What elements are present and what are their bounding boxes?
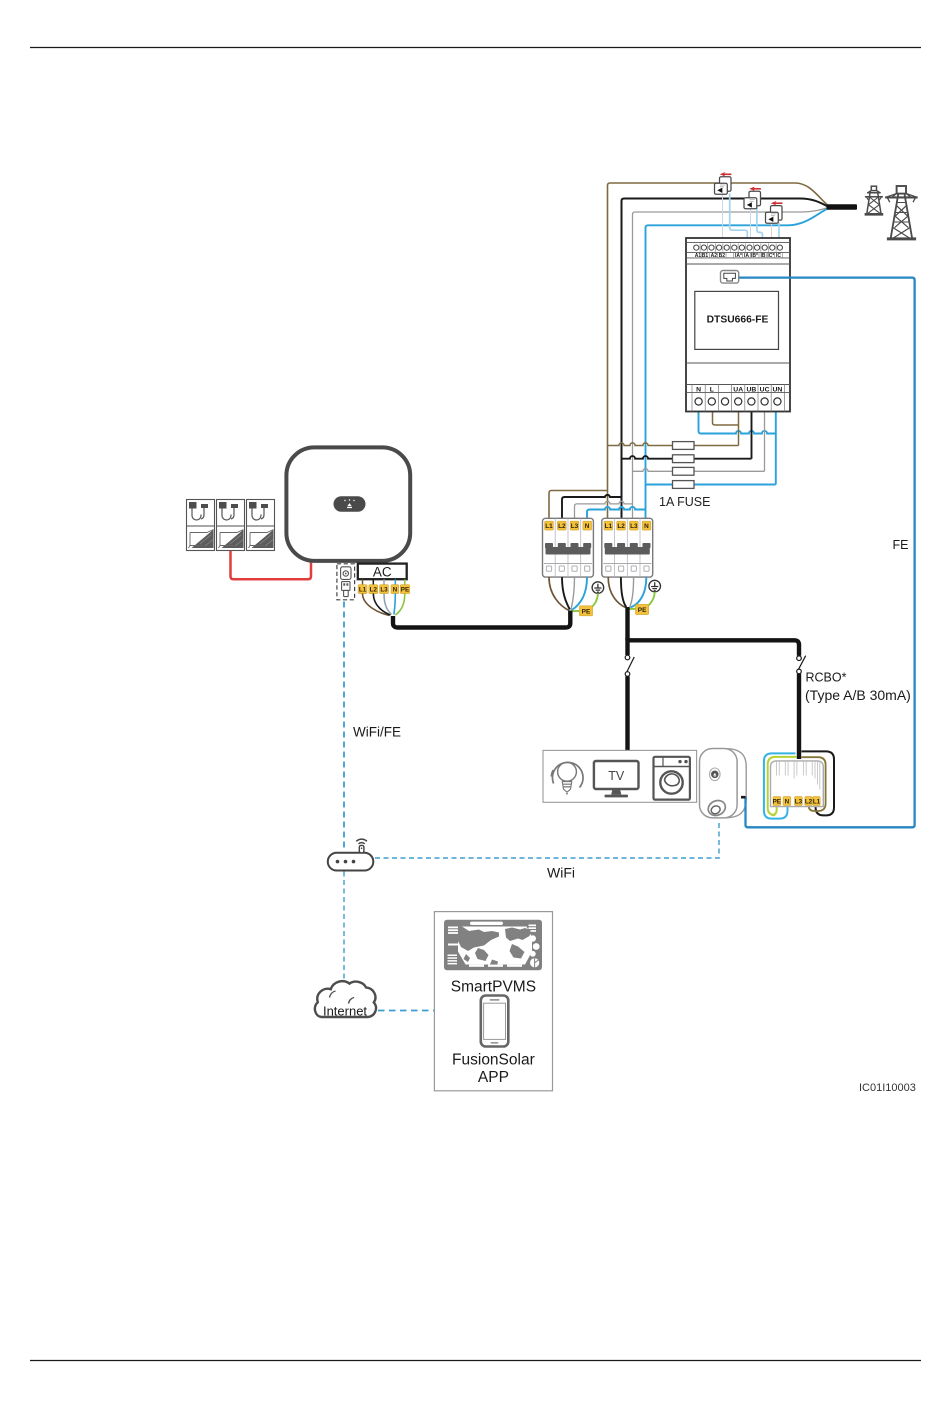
CT1 direction arrow (red) <box>720 172 732 177</box>
ground symbol (MCB1 PE) <box>592 582 604 594</box>
CT clamp 3 (phase C) <box>766 206 783 224</box>
svg-text:L3: L3 <box>630 523 638 530</box>
wire CT3 sense to IC <box>778 223 780 246</box>
SmartPVMS dashboard screenshot <box>444 920 542 970</box>
switch S1 (appliance branch) <box>625 655 630 676</box>
light bulb icon <box>551 762 583 794</box>
CT clamp 1 (phase A) <box>715 177 732 194</box>
ground symbol (MCB2 PE) <box>649 580 661 592</box>
svg-text:IB: IB <box>761 253 766 259</box>
svg-text:FE: FE <box>893 538 909 552</box>
label PE (MCB1) <box>580 606 593 616</box>
wire UA fuse feed (brown) <box>608 412 739 446</box>
svg-text:PE: PE <box>582 608 591 615</box>
wire CT1 sense to IA <box>730 194 748 246</box>
svg-text:L2: L2 <box>805 799 813 806</box>
MCB1 output wires to junction <box>549 577 569 610</box>
meter display panel <box>695 291 779 349</box>
meter top terminal strip <box>686 242 790 244</box>
EV charger badge <box>710 768 721 781</box>
internet cloud <box>315 981 376 1018</box>
fuse F1 1A <box>673 442 695 450</box>
svg-text:L2: L2 <box>558 523 566 530</box>
svg-text:L3: L3 <box>571 523 579 530</box>
svg-text:PE: PE <box>638 607 647 614</box>
FusionSolar phone icon <box>481 996 509 1047</box>
PV string panel 1 <box>187 500 215 551</box>
svg-text:L2: L2 <box>617 523 625 530</box>
svg-text:L1: L1 <box>545 523 553 530</box>
svg-text:PE: PE <box>773 799 781 806</box>
wire UC fuse feed (gray) <box>633 412 765 472</box>
svg-text:IA*: IA* <box>735 253 742 259</box>
dashed link (router to internet cloud) <box>343 872 345 984</box>
svg-text:IC*: IC* <box>767 253 774 259</box>
svg-text:N: N <box>585 523 590 530</box>
dashed link (cloud to SmartPVMS) <box>378 1010 434 1012</box>
cable from MCB2 down (thick black) <box>625 607 629 655</box>
MCB2 toggle handle <box>604 543 650 555</box>
circuit breaker MCB1 (4-pole) <box>543 518 594 577</box>
wire DC red (PV to inverter) <box>231 551 312 579</box>
cable switch S1 to appliances (thick black) <box>625 676 629 753</box>
router body <box>328 839 374 870</box>
cable tee to RCBO branch (thick black) <box>628 638 800 656</box>
wire PE green hook (EV terminal block) <box>768 757 797 815</box>
EV charger socket <box>706 798 728 818</box>
wire L2 black curve into service bundle <box>800 199 828 207</box>
wire FE (meter RJ45 to EV charger, steel blue) <box>739 278 915 828</box>
svg-text:N: N <box>644 523 649 530</box>
wire L1 brown branch to breaker 1 <box>549 491 608 519</box>
svg-text:WiFi: WiFi <box>547 865 575 881</box>
meter bottom terminal labels N L UA UB UC UN <box>686 384 790 386</box>
label PE (MCB2) <box>636 605 649 615</box>
wire CT2 sense faint <box>750 208 752 245</box>
svg-text:IC01I10003: IC01I10003 <box>859 1082 916 1094</box>
svg-text:IC: IC <box>776 253 781 259</box>
wire N blue bus (grid neutral) <box>646 225 789 518</box>
MCB2 output wires to junction <box>608 577 625 607</box>
wire N blue branch to breaker 1 <box>587 507 646 518</box>
svg-text:N: N <box>785 799 790 806</box>
CT clamp 2 (phase B) <box>744 191 761 209</box>
svg-text:(Type A/B 30mA): (Type A/B 30mA) <box>805 687 911 703</box>
svg-text:PE: PE <box>401 587 409 594</box>
svg-text:WiFi/FE: WiFi/FE <box>353 725 401 740</box>
wire UN fuse feed (blue) <box>646 412 776 485</box>
MCB1 labels L1 L2 L3 N <box>545 521 592 530</box>
fuse F2 1A <box>673 455 695 463</box>
AC wires converge to cable <box>363 594 405 616</box>
cable from inverter AC to MCB1 (thick black) <box>393 611 570 628</box>
svg-text:FusionSolar: FusionSolar <box>452 1052 535 1069</box>
svg-text:L3: L3 <box>380 587 388 594</box>
svg-text:A1: A1 <box>695 253 702 259</box>
top rule <box>30 47 921 49</box>
switch S2 RCBO <box>797 656 802 674</box>
household loads box <box>543 750 697 802</box>
wire L2 khaki hook (EV terminal block) <box>802 757 826 811</box>
wire CT1 sense faint <box>722 194 724 245</box>
CT2 direction arrow (red) <box>749 187 761 192</box>
svg-text:1A FUSE: 1A FUSE <box>659 495 710 509</box>
wire PE green (MCB2) <box>629 592 655 609</box>
wire CT3 sense faint <box>771 223 773 246</box>
svg-text:N: N <box>393 587 398 594</box>
AC labels L1 L2 L3 N PE <box>358 585 409 594</box>
TV icon <box>594 761 639 797</box>
svg-text:B2: B2 <box>719 253 726 259</box>
wire L2 black bus (grid phase B) <box>622 199 801 519</box>
wire jumper N to UN (blue, below meter) <box>699 412 776 434</box>
EV terminal block labels PE N L3 L2 L1 <box>773 797 821 806</box>
dashed WiFi/FE link (dongle to router) <box>343 602 345 852</box>
bottom rule <box>30 1360 921 1362</box>
wire UB fuse feed (black) <box>622 412 752 459</box>
MCB2 bottom screws <box>606 566 649 571</box>
meter RJ45 port <box>721 271 739 284</box>
dashed WiFi link (router to EV charger) <box>375 822 719 858</box>
wire N blue hook (EV terminal block) <box>764 753 796 818</box>
MCB1 bottom screws <box>546 566 589 571</box>
MCB1 toggle handle <box>545 543 591 555</box>
wire PE green (MCB1) <box>571 593 598 611</box>
SmartPVMS box <box>434 912 552 1091</box>
svg-text:SmartPVMS: SmartPVMS <box>451 979 536 996</box>
inverter logo pill <box>334 496 366 511</box>
meter top terminal labels A1 B1 A2 B2 IA* IA IB* IB IC* IC <box>686 257 790 259</box>
svg-text:L2: L2 <box>370 587 378 594</box>
power grid tower large <box>885 186 917 239</box>
wire jumper L to UA (brown, below meter) <box>713 412 739 426</box>
svg-text:L3: L3 <box>795 799 803 806</box>
wire L1 brown curve into service bundle <box>795 183 828 205</box>
wire L1 black hook (EV terminal block) <box>802 751 835 815</box>
svg-text:L1: L1 <box>359 587 367 594</box>
cable RCBO to terminal block (thick black) <box>797 674 801 759</box>
wire L3 gray branch to breaker 1 <box>575 501 633 518</box>
washing machine icon <box>654 757 690 800</box>
PV string panel 3 <box>247 500 275 551</box>
router antenna + waves <box>359 845 364 852</box>
svg-text:Internet: Internet <box>323 1004 367 1019</box>
PV string panel 2 <box>217 500 245 551</box>
wire L3 gray bus (grid phase C) <box>633 212 803 518</box>
circuit breaker MCB2 (4-pole) <box>602 518 653 577</box>
svg-text:TV: TV <box>608 769 625 783</box>
inverter SUN2000 body <box>286 447 410 561</box>
svg-text:AC: AC <box>373 564 392 579</box>
fuse F4 1A <box>673 481 695 489</box>
power grid tower small <box>865 186 884 214</box>
svg-text:A2: A2 <box>711 253 718 259</box>
wire L3 gray curve into service bundle <box>802 208 828 212</box>
AC output stub wires <box>363 579 405 584</box>
power meter DTSU666-FE body <box>686 238 790 412</box>
svg-text:B1: B1 <box>702 253 709 259</box>
svg-text:IA: IA <box>744 253 749 259</box>
svg-text:L1: L1 <box>605 523 613 530</box>
svg-text:APP: APP <box>478 1069 509 1086</box>
CT3 direction arrow (red) <box>771 201 783 206</box>
svg-text:L1: L1 <box>813 799 821 806</box>
svg-text:RCBO*: RCBO* <box>806 671 847 685</box>
AC terminal box <box>358 564 407 580</box>
wire L1 brown bus (grid phase A) <box>608 183 796 518</box>
fuse F3 1A <box>673 467 695 475</box>
EV charger body <box>700 749 747 819</box>
meter bottom terminal screws <box>695 398 781 405</box>
svg-text:DTSU666-FE: DTSU666-FE <box>707 314 769 325</box>
wire CT2 sense to IB <box>757 208 763 246</box>
wire L2 black branch to breaker 1 <box>562 495 622 518</box>
EV terminal block connector <box>771 761 824 807</box>
WLAN-FE dongle (dashed box) <box>337 564 355 600</box>
wire N blue curve into service bundle <box>788 209 828 226</box>
MCB2 labels L1 L2 L3 N <box>604 521 651 530</box>
svg-text:IB*: IB* <box>751 253 758 259</box>
service cable bundle to grid <box>827 204 858 210</box>
